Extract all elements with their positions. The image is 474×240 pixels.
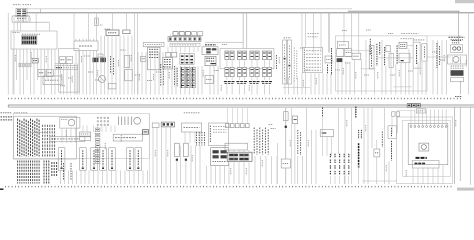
wire label injector return <box>275 55 277 70</box>
sensor B6 <box>399 42 407 48</box>
relay K7 <box>205 56 216 65</box>
control unit ADC <box>209 123 229 146</box>
node header label centre <box>184 112 200 114</box>
display unit <box>211 148 229 166</box>
relay box K12 <box>148 47 161 70</box>
fuse box F000 <box>12 16 30 23</box>
relay K1 <box>32 58 38 63</box>
switch bank S2 <box>226 108 250 128</box>
wire battery stub <box>30 21 49 23</box>
wire label columns below ECU <box>18 161 39 184</box>
wire bundle injectors <box>210 60 270 95</box>
node header label far right <box>401 34 425 40</box>
wire bundle left-centre <box>61 13 97 95</box>
instrument cluster outer housing <box>397 117 453 184</box>
wire bundle bottom-left risers <box>62 126 115 144</box>
wire bus main feed <box>26 12 474 14</box>
gauge P1 <box>60 117 80 128</box>
instrument cluster <box>408 124 448 165</box>
node page label bottom-left <box>0 188 4 190</box>
node bus label right <box>455 96 462 98</box>
motor M1 <box>99 76 117 89</box>
wire label column J <box>381 131 383 147</box>
node bus left join <box>7 105 9 107</box>
wire label columns ECU mid <box>43 125 55 157</box>
resistor R2 <box>80 132 91 140</box>
wire injector feed <box>205 41 243 43</box>
wire label column D <box>396 45 398 64</box>
wire label column C <box>369 39 371 55</box>
sensor B9 <box>320 130 334 137</box>
sensor B10 <box>374 149 380 157</box>
node tab bottom-right <box>457 188 474 191</box>
control unit BSI <box>59 49 80 92</box>
injector Y1 <box>224 51 235 83</box>
connector CA1 pin row <box>168 35 201 47</box>
wire right feeders <box>329 13 358 54</box>
control unit ECU outer dashed boundary <box>13 114 149 185</box>
wire bus +BAT upper <box>26 8 353 10</box>
node header label right <box>401 38 414 40</box>
node label column I <box>355 107 357 118</box>
wire bundle instrument pins <box>411 107 471 185</box>
node schematic title <box>13 4 31 6</box>
node label column H <box>322 108 324 117</box>
node ground numbers row <box>6 186 452 188</box>
node tab top-right <box>455 0 474 3</box>
wire bundle bottom mid-right <box>229 108 303 184</box>
node misc wire labels bottom half <box>66 120 456 177</box>
battery BB00 <box>16 8 27 16</box>
connector strip lower <box>50 136 85 141</box>
wire label column K <box>160 64 162 86</box>
wire bundle bottom right <box>307 107 398 184</box>
wire label column E <box>197 132 205 146</box>
switch S1 <box>38 69 53 76</box>
sensor B3 housing <box>369 45 374 69</box>
node misc wire labels top half <box>15 25 466 91</box>
glow control unit <box>202 45 218 55</box>
sensor B8 <box>182 123 202 132</box>
wire label pair <box>358 130 360 139</box>
wire label column G <box>297 130 299 155</box>
driver bank Q1 <box>180 67 195 88</box>
control unit calculator <box>74 39 98 51</box>
ignition coil T1 <box>451 41 463 53</box>
wire label bar dark <box>358 143 360 168</box>
injector Y3 <box>249 51 260 83</box>
driver bank Q2 <box>58 148 142 171</box>
wire bus +APC middle <box>348 10 460 12</box>
relay K10 <box>281 159 290 168</box>
wire interconnect bus lower <box>8 106 474 108</box>
wire bundle centre <box>101 13 202 95</box>
injector Y2 <box>236 51 247 83</box>
node coil labels <box>449 37 465 40</box>
function table <box>303 48 323 73</box>
relay K8 <box>337 49 352 62</box>
sensor B7 <box>399 53 410 62</box>
connector strip CV1 <box>143 42 164 46</box>
EGR valve unit <box>413 42 427 68</box>
sensor housing upper <box>125 56 130 68</box>
wire label column F <box>254 128 268 155</box>
wire bundle right-centre <box>285 13 350 95</box>
fuse F4 <box>143 130 149 135</box>
resistor pack R1 <box>451 66 465 82</box>
fuse F2 <box>123 30 130 34</box>
node label row ECU <box>30 132 48 134</box>
relay K11 <box>388 126 397 161</box>
terminal column <box>95 128 100 163</box>
node harness label left <box>1 113 29 120</box>
control unit edge connector <box>283 38 311 88</box>
contact grid G1 <box>180 53 194 64</box>
node label pair mid <box>269 125 276 129</box>
connector strip on BSI <box>55 64 78 70</box>
control unit right container <box>335 36 427 91</box>
fuse F3 <box>173 32 203 36</box>
connector pin row <box>119 117 141 126</box>
wire label column A <box>110 56 112 73</box>
label plate <box>412 160 439 168</box>
wire label column B <box>173 66 175 86</box>
wire right interconnects <box>335 46 450 87</box>
fuse F5 <box>95 18 98 26</box>
sensor B12 <box>338 42 349 49</box>
resistor R4 <box>184 143 189 161</box>
sensor housing <box>125 70 133 81</box>
antenna module <box>284 112 298 128</box>
connector label plate right <box>397 109 426 113</box>
connector CA2 <box>113 134 142 141</box>
control unit ECU1331 housing <box>14 116 77 159</box>
sensor B1 <box>205 75 213 83</box>
sensor B4 <box>386 45 390 51</box>
relay box K6 <box>163 57 173 69</box>
injector block housing <box>220 49 274 69</box>
switch S3 <box>392 112 400 116</box>
node splice numbers row <box>9 98 461 100</box>
wire bundle bottom-centre <box>153 127 225 184</box>
fuse box BSM <box>11 31 57 49</box>
injector Y4 <box>261 51 272 83</box>
node connector labels x3 <box>407 104 420 108</box>
relay K9 <box>152 122 175 127</box>
relay K2 <box>19 63 31 67</box>
wire interconnect bus upper <box>8 104 474 106</box>
sensor B5 housing <box>389 53 393 67</box>
relay K4 <box>93 54 107 62</box>
instrument cluster mid housing <box>403 120 451 176</box>
audio unit <box>227 152 252 161</box>
relay K5 <box>141 56 146 61</box>
relay pair K13 <box>166 53 177 58</box>
wire label column L <box>436 43 438 68</box>
connector dot grid <box>97 117 109 126</box>
wire container extension <box>427 35 462 37</box>
wire label columns ECU left <box>18 119 39 157</box>
relay K3 <box>43 76 62 85</box>
node table header <box>308 34 320 37</box>
wire bundle top-left <box>13 13 55 95</box>
wire ground return right <box>362 180 397 182</box>
resistor R3 <box>175 143 180 161</box>
wire bundle bottom-left drops <box>61 163 148 184</box>
fuse F1 <box>106 30 119 36</box>
sensor B11 <box>325 48 332 75</box>
motor M2 <box>448 55 467 64</box>
wire label cluster below ECU mid <box>44 161 57 184</box>
wire left rail <box>7 13 9 95</box>
connector CA3 <box>225 143 248 150</box>
splice grid <box>330 154 348 175</box>
wire bundle right <box>355 11 469 94</box>
sensor B2 <box>352 53 361 59</box>
